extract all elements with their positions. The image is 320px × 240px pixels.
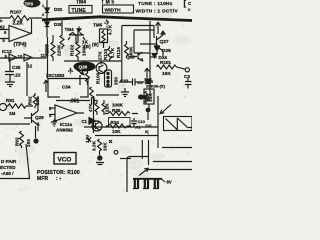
svg-text:Q26: Q26 xyxy=(79,65,88,70)
svg-text:TM5: TM5 xyxy=(101,0,116,6)
svg-text:AN6562: AN6562 xyxy=(56,128,73,133)
svg-text:.001: .001 xyxy=(70,99,80,105)
svg-text:R92: R92 xyxy=(28,96,33,105)
svg-text:(TP4): (TP4) xyxy=(14,42,27,48)
svg-text:R101: R101 xyxy=(160,60,171,65)
svg-text:TUNE: TUNE xyxy=(72,8,87,14)
svg-text:C33: C33 xyxy=(120,79,129,84)
svg-text:C34: C34 xyxy=(62,85,71,90)
svg-text:Q29: Q29 xyxy=(35,115,44,120)
svg-text:IC11a: IC11a xyxy=(60,122,72,127)
svg-text:10K: 10K xyxy=(148,93,153,102)
svg-text:(B): (B) xyxy=(92,42,99,47)
svg-text:2SK30-(X): 2SK30-(X) xyxy=(146,84,166,89)
svg-text:4.7K: 4.7K xyxy=(108,24,113,35)
svg-text:110: 110 xyxy=(145,123,152,128)
svg-text:100: 100 xyxy=(26,139,31,147)
svg-text:D30: D30 xyxy=(54,22,63,27)
svg-text:[: [ xyxy=(184,0,187,8)
svg-text:Q27: Q27 xyxy=(160,39,169,45)
svg-text:100: 100 xyxy=(35,97,40,105)
svg-text:TUNE : 110Hz: TUNE : 110Hz xyxy=(138,1,173,7)
svg-text:10: 10 xyxy=(18,54,23,59)
svg-text:2SC1583: 2SC1583 xyxy=(46,73,65,78)
svg-text:3.3K: 3.3K xyxy=(92,140,97,151)
svg-text:2.2K: 2.2K xyxy=(13,21,24,27)
svg-text:.01: .01 xyxy=(137,80,143,85)
svg-text:8V: 8V xyxy=(167,180,172,185)
svg-text:R107: R107 xyxy=(10,10,22,16)
svg-text:WIDTH: WIDTH xyxy=(105,8,122,14)
svg-text:D31: D31 xyxy=(54,7,63,12)
svg-text:10K: 10K xyxy=(112,129,121,134)
svg-text:1M: 1M xyxy=(9,111,16,116)
svg-text:-A90 /: -A90 / xyxy=(1,171,14,176)
svg-text:TM4: TM4 xyxy=(65,27,75,32)
svg-text:10K: 10K xyxy=(162,71,171,77)
svg-text:2: 2 xyxy=(42,13,44,17)
svg-text:R100: R100 xyxy=(96,72,101,84)
svg-text:TM5: TM5 xyxy=(93,23,103,28)
svg-text:D24: D24 xyxy=(159,55,168,60)
svg-text:12: 12 xyxy=(28,64,33,69)
svg-text:C1: C1 xyxy=(82,119,88,124)
svg-text:ECTED: ECTED xyxy=(0,165,16,170)
svg-text:WIDTH : 1 OCT/V: WIDTH : 1 OCT/V xyxy=(136,8,179,14)
svg-text:TP3: TP3 xyxy=(25,2,34,7)
svg-text:R118: R118 xyxy=(103,48,108,60)
svg-text:100K: 100K xyxy=(129,46,134,58)
svg-text:1: 1 xyxy=(42,4,44,8)
svg-text:.22: .22 xyxy=(14,73,21,78)
svg-text:100K: 100K xyxy=(112,103,124,108)
svg-text:.01: .01 xyxy=(135,125,141,130)
svg-text:MFR : ▪: MFR : ▪ xyxy=(37,176,61,182)
svg-text:47K: 47K xyxy=(88,103,93,112)
svg-text:C35: C35 xyxy=(12,65,21,70)
svg-text:14V: 14V xyxy=(85,134,90,143)
svg-text:R34: R34 xyxy=(111,120,120,125)
svg-text:R116: R116 xyxy=(116,46,121,58)
svg-text:27K: 27K xyxy=(98,51,103,60)
svg-text:22K: 22K xyxy=(105,103,110,112)
svg-text:62: 62 xyxy=(0,25,5,30)
svg-text:R103: R103 xyxy=(45,44,50,56)
svg-text:R102: R102 xyxy=(70,44,75,56)
svg-text:VCO: VCO xyxy=(58,157,72,164)
svg-text:TM4: TM4 xyxy=(76,0,86,6)
svg-text:C3: C3 xyxy=(184,74,190,79)
svg-text:D25: D25 xyxy=(162,48,171,54)
svg-text:350: 350 xyxy=(114,77,119,85)
svg-text:(B): (B) xyxy=(84,44,91,49)
svg-text:R91: R91 xyxy=(6,98,15,103)
svg-text:220K: 220K xyxy=(57,44,62,56)
svg-text:R35: R35 xyxy=(112,108,121,113)
svg-text:4.7K: 4.7K xyxy=(110,47,115,58)
svg-text:D PAIR: D PAIR xyxy=(1,159,17,164)
svg-text:R92: R92 xyxy=(15,137,20,146)
svg-text:10K: 10K xyxy=(103,142,108,151)
